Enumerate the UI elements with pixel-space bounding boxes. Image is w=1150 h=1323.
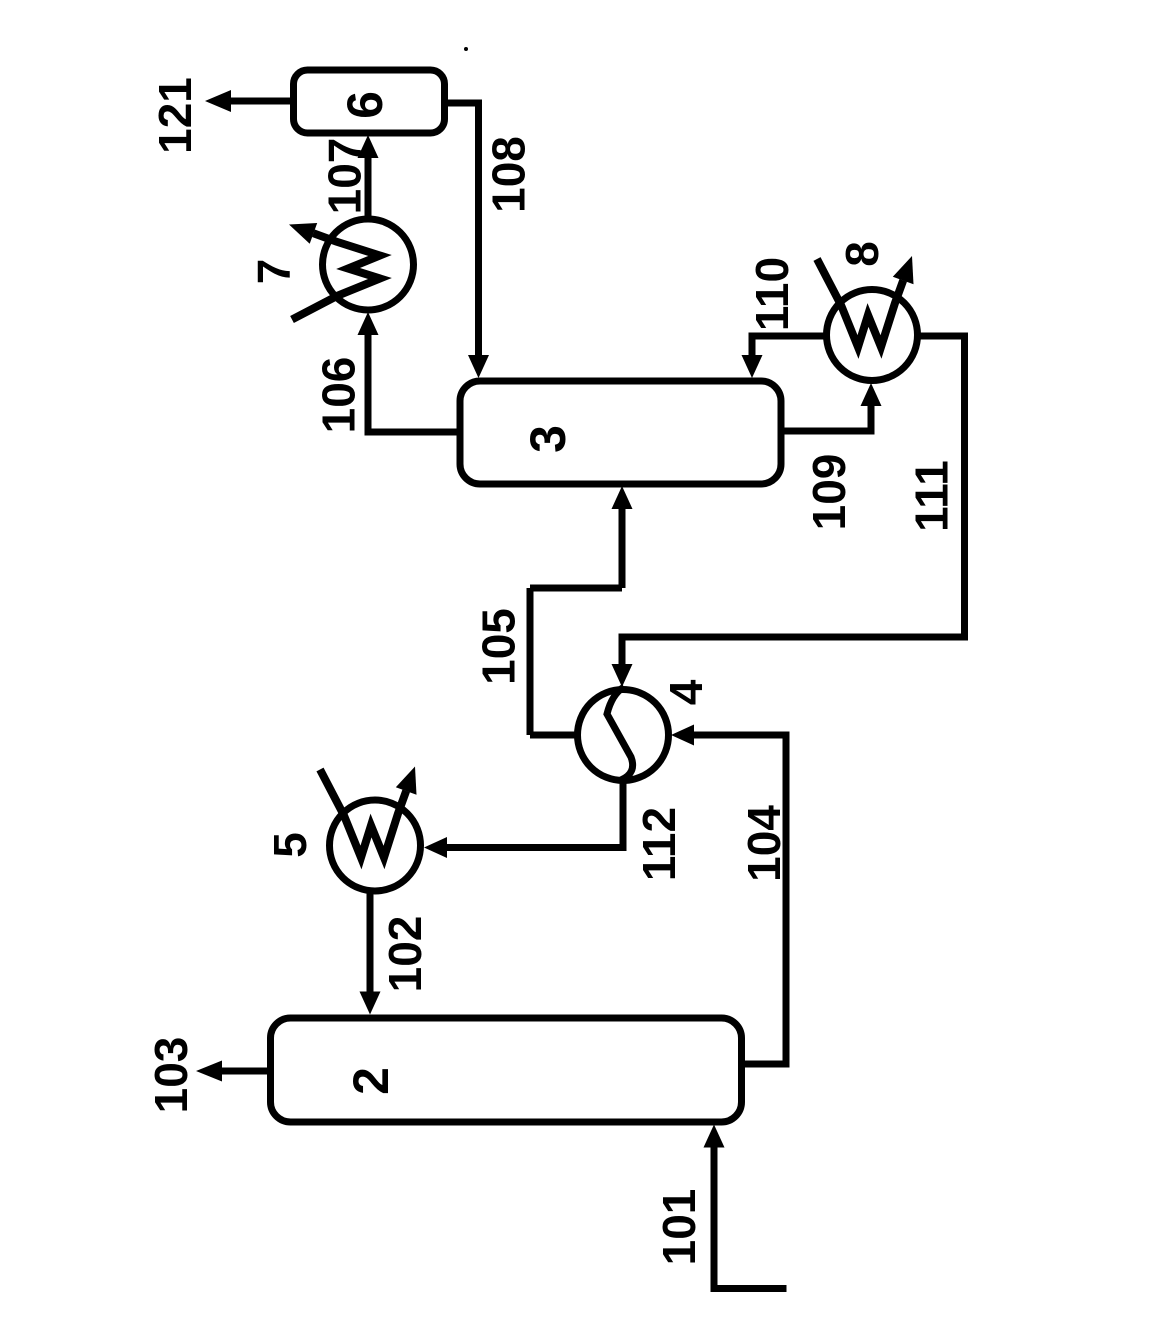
svg-text:106: 106 [313, 357, 365, 434]
svg-text:6: 6 [337, 91, 393, 119]
svg-text:105: 105 [473, 608, 525, 685]
svg-text:108: 108 [483, 136, 535, 213]
svg-text:103: 103 [145, 1037, 197, 1114]
svg-text:5: 5 [264, 832, 316, 858]
svg-text:102: 102 [379, 916, 431, 993]
svg-text:107: 107 [319, 138, 371, 215]
svg-text:2: 2 [343, 1067, 399, 1095]
svg-text:8: 8 [836, 241, 888, 267]
svg-text:110: 110 [746, 257, 798, 331]
svg-text:104: 104 [738, 805, 790, 882]
svg-text:109: 109 [803, 454, 855, 531]
svg-text:111: 111 [906, 460, 958, 532]
svg-text:112: 112 [633, 807, 685, 881]
svg-text:7: 7 [248, 259, 300, 285]
svg-text:4: 4 [660, 679, 712, 705]
svg-text:101: 101 [653, 1189, 705, 1266]
svg-text:3: 3 [520, 425, 576, 453]
svg-text:121: 121 [149, 77, 201, 154]
